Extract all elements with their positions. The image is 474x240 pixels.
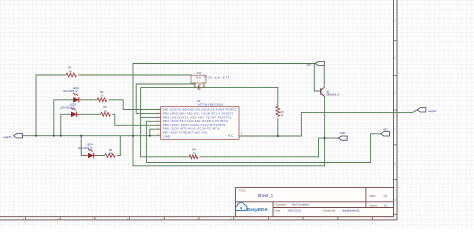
wire GND rail [141,156,319,158]
junction IC pin6 riser on main wire [149,135,151,137]
wire collector to port [323,66,325,88]
frame ticks right [394,41,398,215]
port GND [339,132,348,140]
junction emitter line at GND branch [324,137,326,139]
svg-text:Sheet_1: Sheet_1 [258,193,274,198]
resistor R5 on LED4 row [105,154,116,158]
svg-text:BA-F"26-mm-STF: BA-F"26-mm-STF [197,77,230,80]
wire IC pin6 stub [150,129,161,136]
svg-text:VCC: VCC [228,134,234,138]
resistor R4 on GND rail [189,155,198,159]
svg-text:1.0: 1.0 [383,194,387,198]
wire VCC rail from IC pin1 to right port [239,110,417,136]
svg-text:Your Company: Your Company [292,203,310,207]
resistor R1 [66,73,76,77]
wire LED1 row [54,100,161,136]
svg-text:LED-0603_R: LED-0603_R [60,106,75,109]
svg-text:+app5v: +app5v [428,109,438,113]
svg-text:Date:: Date: [275,209,282,213]
LED1 [73,93,79,103]
svg-text:LS1: LS1 [197,72,202,75]
port VB1 [381,128,390,136]
resistor R3 [101,112,111,116]
switch SW1 [198,85,201,89]
svg-text:LED-0603_R: LED-0603_R [63,90,78,93]
svg-text:EasyEDA: EasyEDA [247,207,267,212]
wire main +5V horizontal from left port to IC pin4 [23,135,161,137]
junction LED4 branch on main wire [80,135,82,137]
svg-text:PB4 (SCK/T2/CLKO AD2 OC1B A PC: PB4 (SCK/T2/CLKO AD2 OC1B A PCINT4) [163,119,228,123]
frame reference letters right [394,21,396,202]
port +5V left [3,134,23,139]
svg-text:2023-11-15: 2023-11-15 [288,209,302,213]
svg-text:dyaalkhaled10: dyaalkhaled10 [342,209,360,213]
svg-text:Drawn By:: Drawn By: [324,209,337,213]
wire R6 vertical [277,88,279,136]
frame ticks bottom [26,217,373,220]
wire LED4 loop [81,136,120,156]
svg-text:1/1: 1/1 [384,204,388,208]
svg-text:REV:: REV: [370,194,377,198]
svg-text:S8050NL-G: S8050NL-G [326,93,340,97]
junction rail B vertical on main wire [132,135,134,137]
svg-text:ATTINY88-20SU: ATTINY88-20SU [198,102,223,106]
svg-text:TITLE:: TITLE: [239,189,247,192]
svg-text:PB5 (SCK) ADC2 OC0A OC1A B PCI: PB5 (SCK) ADC2 OC0A OC1A B PCINT5 [163,123,226,127]
IC U1 ATTINY88 [161,107,239,140]
wire R1 row [36,74,191,76]
svg-text:R2: R2 [100,90,104,94]
buzzer LS1 [191,75,206,83]
svg-text:PB3 (USCK/SCL AD3 AD2 T0/INT P: PB3 (USCK/SCL AD3 AD2 T0/INT PCINT3) [163,115,231,119]
wire buzzer pin1 to IC [136,84,195,113]
svg-text:GND: GND [164,134,170,138]
wire rail B top to +5V port [133,64,315,166]
junction LED2 row riser on main wire [60,135,62,137]
svg-text:PB1 (SCK/T1) SDA AD1 SCL/OC1A: PB1 (SCK/T1) SDA AD1 SCL/OC1A OC.A ADIF … [163,108,237,112]
sheet frame bottom double line [0,217,397,220]
wire VB rail [146,121,380,162]
port +5V right [417,108,437,113]
LED2 [71,108,77,118]
wire riser to R1 row [35,75,37,136]
svg-text:R4: R4 [193,147,197,151]
wire emitter down [324,97,326,166]
svg-text:LED-0603_R: LED-0603_R [78,147,93,150]
svg-text:PB2 (MISO/DI) AD2 SCL OC1B SCL: PB2 (MISO/DI) AD2 SCL OC1B SCL A PCINT2 [163,112,234,116]
sheet frame right double line [394,0,398,220]
junction R6 bottom on VCC rail [277,135,279,137]
svg-text:Q1: Q1 [326,89,330,93]
wire buzzer pin stubs [194,83,196,88]
wire GND port branch [319,138,339,157]
junction LED1 row riser on main wire [53,135,55,137]
resistor R6 vertical [276,106,280,116]
junction R1 riser on main wire [35,135,37,137]
resistor R2 [97,98,107,102]
svg-text:Sheet:: Sheet: [370,204,378,208]
svg-text:+5V: +5V [306,63,311,67]
transistor Q1 [321,87,325,96]
wire switch row to R6 [141,88,278,157]
wire LED2 row [61,114,161,135]
port +5V top [306,61,324,66]
svg-text:R3: R3 [104,105,108,109]
frame reference digits bottom [23,218,233,220]
wire gaps under resistors [66,73,280,160]
svg-text:Company:: Company: [275,203,288,207]
wire IC pin3 stub [141,116,161,118]
EasyEDA logo [235,203,267,212]
svg-text:R1: R1 [68,66,72,70]
svg-text:+app5v: +app5v [3,135,13,139]
wire base drop [314,64,321,92]
wire G2 rail [133,165,325,167]
LED4 [88,149,94,159]
svg-text:VB1: VB1 [383,128,388,131]
svg-text:GND: GND [340,132,346,135]
svg-text:PB6 (SCK/INT0 AIN0 OC0A PCINT6: PB6 (SCK/INT0 AIN0 OC0A PCINT6) [163,127,220,131]
